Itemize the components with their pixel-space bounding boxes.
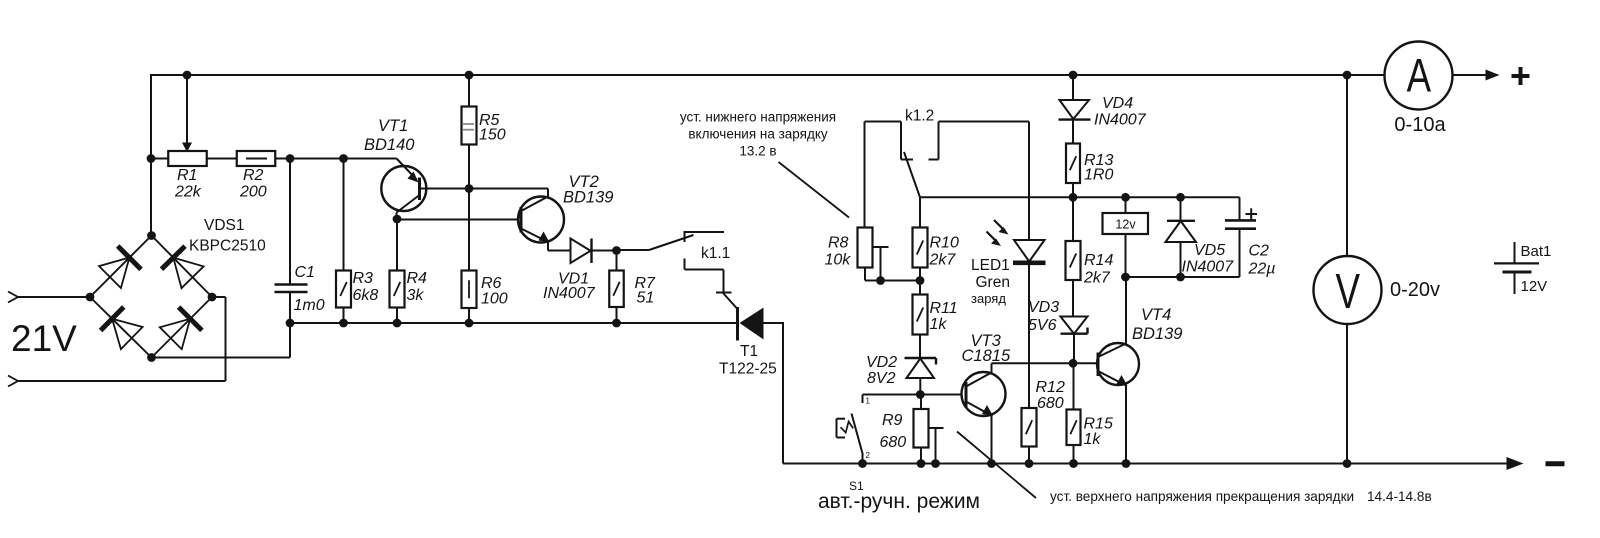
- node VD5 top: [1176, 193, 1185, 202]
- resistor R15 1k: [1073, 363, 1075, 409]
- node voltmeter bottom: [1343, 459, 1352, 468]
- wire bottom negative rail: [783, 463, 1508, 465]
- resistor R5 150: [468, 75, 470, 107]
- battery Bat1 12V: [1514, 242, 1516, 263]
- svg-text:включения на зарядку: включения на зарядку: [688, 127, 828, 142]
- svg-text:IN4007: IN4007: [1182, 259, 1235, 276]
- potentiometer R9 680: [920, 395, 922, 410]
- potentiometer R8 10k: [858, 228, 873, 268]
- svg-text:VT4: VT4: [1141, 306, 1171, 324]
- svg-text:BD139: BD139: [1132, 325, 1182, 343]
- svg-text:VT1: VT1: [378, 117, 408, 135]
- svg-text:0-10a: 0-10a: [1394, 114, 1446, 136]
- svg-text:2: 2: [866, 451, 871, 460]
- node R4 bottom: [393, 319, 402, 328]
- terminal - sign: [1546, 461, 1565, 466]
- svg-text:R1: R1: [177, 167, 197, 184]
- svg-text:3k: 3k: [407, 287, 425, 304]
- wire R1 left to + vertical: [151, 158, 168, 160]
- diode VD4 IN4007: [1072, 75, 1074, 100]
- node relay coil top: [1121, 193, 1130, 202]
- LED1 light arrows: [994, 220, 1005, 231]
- svg-text:R12: R12: [1036, 379, 1065, 396]
- node VT1 collector: [393, 215, 402, 224]
- switch S1 manual mode: [863, 394, 921, 396]
- wire bridge - output to C1 bottom: [152, 357, 291, 359]
- svg-text:k1.1: k1.1: [701, 245, 730, 262]
- wire lower AC input: [16, 380, 226, 382]
- voltmeter V 0-20v: [1346, 75, 1348, 256]
- svg-text:VD3: VD3: [1028, 299, 1059, 316]
- resistor R12 680: [1022, 408, 1037, 447]
- node coil bottom / VT4 collector: [1121, 273, 1130, 282]
- svg-text:VDS1: VDS1: [204, 217, 245, 234]
- svg-text:51: 51: [637, 290, 655, 307]
- potentiometer R1 22k body: [168, 151, 207, 166]
- svg-text:150: 150: [479, 127, 506, 144]
- node R3 bottom: [339, 319, 348, 328]
- svg-text:680: 680: [880, 434, 907, 451]
- svg-text:680: 680: [1037, 395, 1064, 412]
- resistor R4 3k: [396, 219, 398, 271]
- svg-text:1k: 1k: [1084, 431, 1102, 448]
- svg-text:22µ: 22µ: [1248, 261, 1276, 278]
- node R9 bottom: [917, 459, 926, 468]
- node VT3 emitter bottom: [987, 459, 996, 468]
- flyback diode VD5 IN4007: [1180, 197, 1182, 221]
- svg-text:200: 200: [239, 184, 267, 201]
- node R10 bottom / R11 top: [916, 276, 925, 285]
- R9 wiper: [929, 427, 944, 429]
- wire top positive rail: [151, 74, 1385, 76]
- node VD1 / R7 / k1.1: [612, 246, 621, 255]
- bridge diode lower-left (VDS1): [112, 319, 143, 349]
- transistor VT2 BD139 (NPN): [518, 197, 564, 243]
- svg-text:22k: 22k: [174, 184, 202, 201]
- svg-text:0-20v: 0-20v: [1390, 279, 1440, 301]
- svg-text:8V2: 8V2: [867, 370, 896, 387]
- svg-text:VD5: VD5: [1194, 242, 1225, 259]
- zener diode VD2 8V2: [905, 357, 937, 359]
- svg-text:12V: 12V: [1521, 278, 1548, 295]
- annotation pointer line to R8: [779, 162, 850, 218]
- relay contact k1.2: [864, 122, 866, 228]
- R1 wiper arrow from top rail: [186, 75, 188, 144]
- input terminal arrow upper: [8, 292, 18, 303]
- node C1 top junction: [286, 154, 295, 163]
- node junction top rail / voltmeter branch: [1343, 71, 1352, 80]
- C2 plus polarity mark: [1246, 213, 1258, 215]
- svg-text:21V: 21V: [11, 318, 77, 359]
- svg-text:C1: C1: [295, 264, 315, 281]
- svg-text:IN4007: IN4007: [543, 285, 596, 302]
- svg-text:V: V: [1336, 265, 1361, 319]
- resistor R3 6k8: [336, 271, 351, 308]
- svg-text:1k: 1k: [930, 316, 948, 333]
- node bridge left AC: [86, 293, 95, 302]
- transistor VT1 BD140 (PNP): [381, 166, 426, 211]
- node junction top rail / R1 wiper: [183, 71, 192, 80]
- wire 12V internal rail: [920, 196, 1240, 198]
- svg-text:1m0: 1m0: [294, 297, 325, 314]
- svg-text:R15: R15: [1084, 416, 1113, 433]
- node junction top rail / R5: [465, 71, 474, 80]
- svg-text:IN4007: IN4007: [1094, 112, 1147, 129]
- node R5 bottom / VT1 base / VT2 collector: [465, 184, 474, 193]
- bridge diode upper-left (VDS1): [99, 258, 129, 288]
- svg-text:2k7: 2k7: [929, 252, 957, 269]
- capacitor C1 1m0: [289, 159, 291, 285]
- svg-text:R11: R11: [930, 300, 958, 317]
- node R15 bottom: [1069, 459, 1078, 468]
- svg-text:100: 100: [481, 291, 508, 308]
- svg-text:Bat1: Bat1: [1521, 243, 1552, 260]
- svg-text:BD140: BD140: [364, 136, 415, 154]
- svg-text:R6: R6: [481, 275, 502, 292]
- wire VT3 collector to VD3 node and VT4 base: [992, 362, 1099, 364]
- svg-text:1R0: 1R0: [1084, 167, 1113, 184]
- wire middle negative rail: [290, 322, 738, 324]
- resistor R13 1R0: [1066, 144, 1080, 184]
- k1.1 lower terminal hook to T1 gate: [684, 259, 686, 270]
- terminal + output: [1512, 74, 1530, 78]
- resistor R10 2k7: [919, 197, 921, 227]
- annotation pointer line upper-threshold: [957, 432, 1036, 499]
- S1 actuator: [836, 419, 838, 438]
- svg-text:13.2 в: 13.2 в: [739, 144, 776, 159]
- relay contact k1.1: [617, 249, 650, 251]
- svg-text:R8: R8: [828, 235, 849, 252]
- resistor R7 51: [616, 251, 618, 271]
- node R13 bottom: [1069, 193, 1078, 202]
- wire VT1 collector to VT2 base: [397, 219, 521, 221]
- LED1 Gren indicator: [1028, 122, 1030, 241]
- svg-text:VD4: VD4: [1102, 95, 1133, 112]
- svg-text:заряд: заряд: [971, 291, 1006, 306]
- terminal - output arrow: [1507, 457, 1524, 470]
- resistor R11 1k: [919, 281, 921, 295]
- capacitor C2 22u: [1239, 197, 1241, 220]
- wire coil bottom rail: [1126, 276, 1240, 278]
- wire R1 to R2: [207, 158, 237, 160]
- svg-text:уст. нижнего напряжения: уст. нижнего напряжения: [680, 110, 836, 125]
- bridge diode lower-right (VDS1): [160, 319, 190, 349]
- input terminal arrow lower: [8, 376, 18, 387]
- svg-text:T122-25: T122-25: [719, 361, 777, 378]
- wire left vertical from top rail to bridge + node: [150, 74, 152, 236]
- svg-text:BD139: BD139: [563, 189, 613, 207]
- svg-text:Gren: Gren: [976, 274, 1010, 291]
- node R6 bottom: [465, 319, 474, 328]
- svg-text:LED1: LED1: [971, 257, 1010, 274]
- node S1 bottom: [858, 459, 867, 468]
- node VD3 / R15 / VT4 base: [1069, 359, 1078, 368]
- bridge diode upper-right (VDS1): [173, 258, 203, 289]
- wire R2 to VT1 emitter node: [275, 158, 397, 160]
- svg-text:R10: R10: [930, 235, 959, 252]
- node R7 bottom: [612, 319, 621, 328]
- resistor R6 100: [468, 189, 470, 271]
- svg-text:5V6: 5V6: [1028, 317, 1057, 334]
- svg-text:6k8: 6k8: [353, 287, 379, 304]
- svg-text:k1.2: k1.2: [905, 108, 934, 125]
- svg-text:1: 1: [866, 397, 871, 406]
- zener diode VD3 5V6: [1061, 317, 1088, 334]
- svg-text:R14: R14: [1084, 252, 1113, 269]
- svg-text:R3: R3: [353, 270, 374, 287]
- svg-text:R2: R2: [243, 167, 264, 184]
- relay coil K1 12v: [1125, 197, 1127, 213]
- node R9 wiper bottom: [931, 459, 940, 468]
- node bridge top +: [147, 231, 156, 240]
- node R3 top junction: [339, 154, 348, 163]
- node junction top rail / VD4: [1069, 71, 1078, 80]
- resistor R14 2k7: [1072, 197, 1074, 241]
- svg-text:R9: R9: [882, 412, 903, 429]
- bridge rectifier VDS1 KBPC2510 diamond: [90, 236, 152, 298]
- svg-text:14.4-14.8в: 14.4-14.8в: [1367, 489, 1432, 504]
- transistor VT3 C1815 (NPN): [920, 394, 966, 396]
- svg-text:12v: 12v: [1115, 218, 1136, 232]
- svg-text:10k: 10k: [825, 252, 852, 269]
- svg-text:A: A: [1407, 49, 1432, 101]
- svg-text:авт.-ручн. режим: авт.-ручн. режим: [818, 490, 980, 513]
- ammeter A 0-10a: [1385, 42, 1453, 110]
- svg-text:уст. верхнего напряжения прекр: уст. верхнего напряжения прекращения зар…: [1050, 489, 1354, 504]
- thyristor T1 T122-25: [736, 307, 739, 341]
- svg-text:VD2: VD2: [866, 354, 897, 371]
- node bridge right AC: [208, 293, 217, 302]
- node bridge bottom -: [147, 353, 156, 362]
- node R8 wiper junction: [876, 276, 885, 285]
- wire upper AC input: [16, 296, 90, 298]
- node VD2 / R9 / S1 / VT3 base: [916, 390, 925, 399]
- svg-text:C2: C2: [1249, 243, 1270, 260]
- resistor R2 200 body: [237, 151, 276, 166]
- node R1 left junction: [147, 154, 156, 163]
- node VD5 bottom: [1176, 273, 1185, 282]
- node VT4 emitter bottom: [1122, 459, 1131, 468]
- svg-text:T1: T1: [740, 343, 758, 360]
- wire R3 lead down: [343, 159, 345, 271]
- node C1 bottom junction: [286, 319, 295, 328]
- svg-text:KBPC2510: KBPC2510: [189, 238, 266, 255]
- svg-text:2k7: 2k7: [1083, 270, 1111, 287]
- svg-text:R4: R4: [407, 270, 428, 287]
- transistor VT4 BD139 (NPN): [1097, 343, 1139, 385]
- diode VD1 IN4007: [571, 239, 591, 264]
- R8 wiper: [873, 246, 889, 248]
- node R12 bottom: [1025, 459, 1034, 468]
